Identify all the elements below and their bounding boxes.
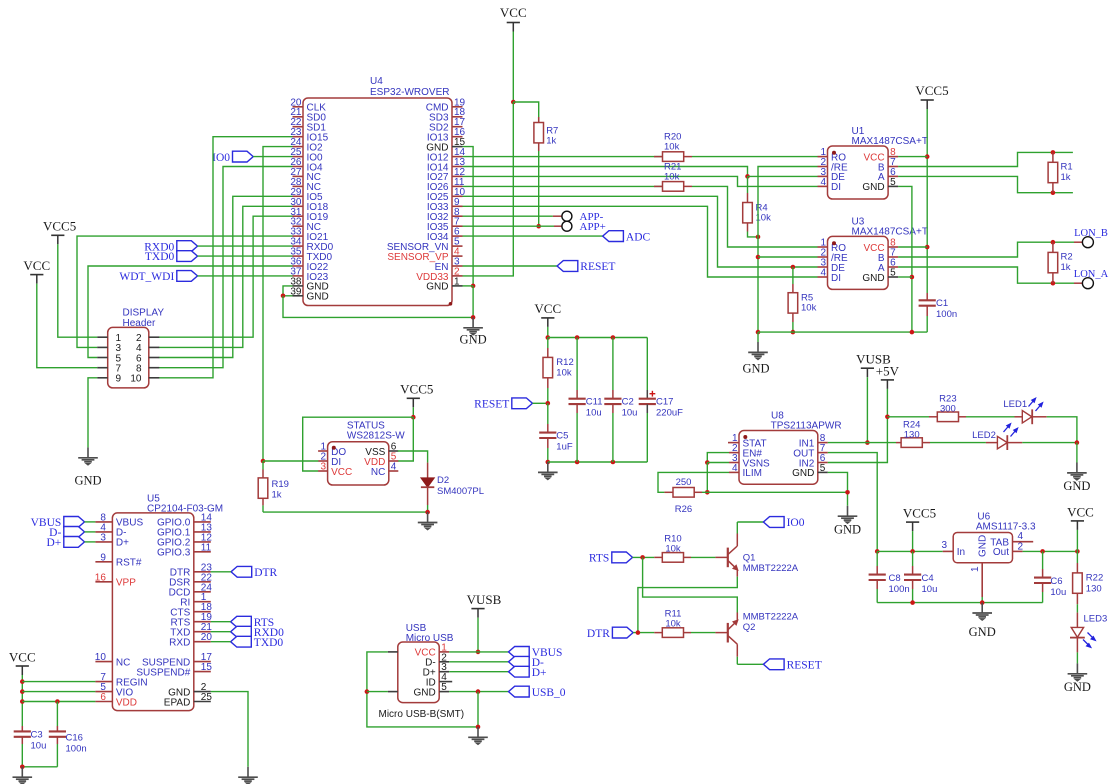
- svg-text:DI: DI: [831, 182, 841, 193]
- svg-text:C4: C4: [922, 573, 934, 584]
- port LON_B: [1074, 228, 1108, 248]
- svg-text:10k: 10k: [664, 142, 680, 153]
- junction C3 gnd: [20, 765, 25, 770]
- svg-text:IO0: IO0: [212, 152, 230, 164]
- junction U8 gnd: [845, 490, 850, 495]
- svg-text:10u: 10u: [1050, 587, 1066, 598]
- wire VCC stem: [512, 32, 514, 103]
- net label WDT_WDI: [119, 271, 197, 284]
- wire VUSB down: [866, 377, 868, 442]
- svg-text:LON_A: LON_A: [1074, 269, 1109, 280]
- svg-text:LED2: LED2: [972, 430, 996, 441]
- svg-text:TXD0: TXD0: [254, 637, 284, 649]
- svg-text:4: 4: [820, 268, 826, 279]
- wire TXD0 u5: [211, 641, 231, 643]
- junction C5 gnd: [546, 460, 551, 465]
- wire VCC stem u5: [21, 675, 23, 726]
- svg-text:1: 1: [970, 566, 981, 572]
- svg-text:AMS1117-3.3: AMS1117-3.3: [976, 522, 1036, 533]
- capacitor C17 polarized: [639, 338, 683, 463]
- ground below U5: [238, 767, 258, 784]
- junction IN1 VUSB: [865, 440, 870, 445]
- svg-text:100n: 100n: [936, 309, 957, 320]
- wire R21 to U3 RO: [692, 186, 818, 247]
- svg-text:RTS: RTS: [589, 553, 609, 565]
- junction DTR: [636, 630, 641, 635]
- svg-text:100n: 100n: [889, 584, 910, 595]
- wire VSNS: [707, 462, 729, 464]
- svg-text:11: 11: [201, 542, 212, 553]
- wire VBUS u5: [85, 521, 96, 523]
- wire IO2 pin24 down to R19: [263, 147, 293, 461]
- svg-text:TXD0: TXD0: [145, 251, 175, 263]
- connector DISPLAY header: [97, 308, 164, 388]
- resistor R24: [896, 420, 930, 448]
- svg-text:R1: R1: [1061, 162, 1073, 173]
- wire R19 node to DI: [263, 460, 318, 462]
- resistor R21: [654, 162, 692, 192]
- wire IO25 to U3 DE: [463, 196, 818, 267]
- wire U1 VCC pin8: [898, 156, 927, 158]
- svg-text:C11: C11: [586, 397, 603, 408]
- IC U8 TPS2113APWR: [728, 411, 842, 485]
- svg-text:NC: NC: [371, 467, 385, 478]
- wire usb D-: [449, 661, 508, 663]
- svg-text:VCC5: VCC5: [903, 506, 936, 521]
- svg-text:10k: 10k: [801, 303, 817, 314]
- IC U6 AMS1117-3.3: [941, 512, 1036, 598]
- svg-text:R12: R12: [556, 357, 573, 368]
- wire usb shield: [367, 652, 478, 727]
- svg-text:R26: R26: [675, 504, 692, 515]
- wire IO26 to R21: [463, 185, 663, 187]
- power flag VCC5 left: [43, 219, 76, 245]
- wire Q1 emitter to DTR: [638, 577, 737, 633]
- wire R26 to gnd node: [702, 491, 848, 493]
- svg-text:APP-: APP-: [580, 211, 604, 223]
- wire VDD: [22, 701, 95, 703]
- wire VSS to D2: [398, 451, 428, 463]
- junction VIO: [20, 689, 25, 694]
- wire U1 GND pin5 down: [898, 186, 912, 332]
- ground below U4: [460, 317, 487, 346]
- junction VDD: [20, 699, 25, 704]
- svg-text:Q1: Q1: [743, 553, 756, 564]
- wire to U1 DE: [748, 175, 818, 177]
- wire usb shield pin2: [367, 691, 388, 693]
- svg-text:GPIO.3: GPIO.3: [157, 548, 191, 559]
- svg-text:GND: GND: [413, 687, 435, 698]
- junction R5 top: [791, 265, 796, 270]
- IC U4 ESP32-WROVER: [290, 76, 465, 306]
- wire DTR node: [633, 632, 654, 634]
- wire IO12 to R20: [463, 156, 663, 158]
- svg-text:CP2104-F03-GM: CP2104-F03-GM: [147, 504, 223, 515]
- svg-text:Out: Out: [993, 547, 1009, 558]
- wire EN pin3 to RESET: [463, 265, 558, 267]
- junction R2 top: [1051, 240, 1056, 245]
- svg-text:GND: GND: [460, 333, 487, 347]
- wire cap bottom bus: [548, 461, 648, 463]
- wire pin1 GND: [463, 285, 474, 287]
- wire WDT_WDI to pin 37: [198, 275, 293, 277]
- wire OUT down: [828, 453, 877, 552]
- svg-text:GND: GND: [862, 182, 884, 193]
- wire ldo input bus: [877, 550, 943, 552]
- junction C16 top: [55, 699, 60, 704]
- svg-text:130: 130: [904, 430, 920, 441]
- junction pin39 gnd: [281, 294, 286, 299]
- junction U3 /RE: [756, 255, 761, 260]
- svg-text:RST#: RST#: [116, 558, 142, 569]
- wire LED1 to gnd corner: [1047, 417, 1077, 443]
- svg-text:RESET: RESET: [787, 660, 822, 672]
- net label IO0: [212, 151, 253, 164]
- wire U1 A loop: [898, 176, 1073, 192]
- junction usb gnd: [476, 689, 481, 694]
- svg-text:VCC: VCC: [500, 5, 527, 20]
- svg-text:NC: NC: [116, 657, 130, 668]
- ground below LEDs: [1063, 463, 1090, 494]
- wire header pin9 to gnd: [88, 378, 97, 448]
- junction RTS: [640, 555, 645, 560]
- svg-text:16: 16: [95, 572, 107, 583]
- junction C4 gnd: [910, 600, 915, 605]
- wire ldo gnd bus: [877, 602, 1042, 604]
- wire RXD0 to pin 34: [198, 245, 293, 247]
- power flag VCC5 status: [400, 382, 433, 408]
- svg-text:6: 6: [100, 692, 106, 703]
- resistor R12: [543, 338, 574, 404]
- wire IO33 to U3 DI: [463, 206, 818, 277]
- port APP-: [562, 211, 604, 223]
- capacitor C6: [1034, 551, 1066, 602]
- port LON_A: [1074, 269, 1109, 289]
- label Micro USB-B(SMT): [379, 709, 465, 720]
- svg-text:Header: Header: [123, 318, 156, 329]
- wire R24 to LED2: [930, 442, 986, 444]
- svg-text:1: 1: [454, 276, 460, 287]
- svg-text:VCC5: VCC5: [43, 219, 76, 234]
- svg-text:+5V: +5V: [876, 364, 900, 379]
- junction R4 gnd: [756, 235, 761, 240]
- svg-text:R2: R2: [1061, 252, 1073, 263]
- svg-text:9: 9: [116, 374, 122, 385]
- wire U3 GND pin5: [898, 276, 912, 278]
- wire TXD0 to pin 35: [198, 255, 293, 257]
- led LED1: [1003, 398, 1046, 424]
- diode D2: [421, 463, 484, 512]
- svg-text:C5: C5: [556, 431, 568, 442]
- wire GND pins 38/39: [283, 286, 293, 296]
- junction REGIN: [20, 679, 25, 684]
- capacitor C16: [49, 702, 87, 767]
- net label RESET q2: [763, 659, 821, 672]
- wire R20 to U1 RO: [692, 156, 818, 158]
- svg-text:ILIM: ILIM: [743, 468, 762, 479]
- svg-text:VCC: VCC: [331, 467, 352, 478]
- wire VUSB stem: [477, 618, 479, 652]
- power flag VUSB right: [856, 352, 891, 378]
- svg-text:5: 5: [890, 177, 896, 188]
- transistor Q1 MMBT2222A: [728, 534, 799, 577]
- capacitor C3: [14, 726, 47, 767]
- wire usb D+: [449, 671, 508, 673]
- svg-text:4: 4: [1018, 531, 1024, 542]
- capacitor C11: [569, 338, 603, 463]
- svg-text:Micro USB-B(SMT): Micro USB-B(SMT): [379, 709, 465, 720]
- svg-text:10u: 10u: [586, 408, 602, 419]
- wire R24 from VUSB: [867, 442, 896, 444]
- connector USB Micro USB: [388, 623, 454, 703]
- power flag VUSB usb: [467, 592, 502, 618]
- svg-text:4: 4: [732, 463, 738, 474]
- power flag VCC mid: [534, 301, 561, 327]
- resistor R20: [654, 132, 692, 162]
- junction DE R4: [745, 174, 750, 179]
- wire IO4 pin26 to header pin8: [159, 167, 293, 368]
- wire VCC stem mid: [547, 327, 549, 338]
- capacitor C1: [919, 293, 958, 332]
- net label RXD0 u5: [231, 626, 284, 639]
- svg-text:RESET: RESET: [580, 261, 615, 273]
- junction U3 VCC: [925, 245, 930, 250]
- net label D+ usb: [509, 666, 547, 679]
- net label D- u5: [49, 527, 84, 540]
- junction C2 bottom: [611, 460, 616, 465]
- wire IO19 pin31 to header pin2: [159, 216, 293, 337]
- svg-text:GND: GND: [969, 625, 996, 639]
- resistor R5: [788, 267, 816, 332]
- svg-text:20: 20: [201, 632, 213, 643]
- svg-text:3: 3: [100, 532, 106, 543]
- svg-text:1k: 1k: [272, 490, 282, 501]
- svg-text:GND: GND: [978, 535, 989, 557]
- net label RTS q: [589, 552, 633, 565]
- junction VSNS: [705, 460, 710, 465]
- svg-text:25: 25: [201, 692, 213, 703]
- wire U3 A loop: [898, 267, 1074, 283]
- svg-text:VCC: VCC: [9, 650, 36, 665]
- resistor R1: [1048, 152, 1073, 192]
- wire VCC5 rail: [926, 109, 928, 293]
- IC U5 CP2104-F03-GM: [95, 494, 223, 711]
- wire RTS to Q2 collector: [643, 557, 738, 612]
- svg-text:TPS2113APWR: TPS2113APWR: [771, 421, 842, 432]
- wire VCC down to VDD33: [463, 102, 514, 276]
- junction R7 APP+: [536, 224, 541, 229]
- resistor R26: [664, 477, 702, 515]
- power flag VCC5 ldo: [903, 506, 936, 532]
- svg-text:VCC: VCC: [534, 301, 561, 316]
- svg-text:ADC: ADC: [626, 231, 651, 243]
- wire C3 C16 gnd bus: [22, 766, 57, 768]
- svg-text:SUSPEND#: SUSPEND#: [136, 667, 190, 678]
- svg-text:VDD: VDD: [116, 697, 137, 708]
- wire U8 GND pin5: [828, 472, 848, 505]
- wire IO32 pin8 to APP-: [463, 215, 562, 217]
- svg-text:DTR: DTR: [587, 628, 610, 640]
- resistor R4: [743, 176, 771, 231]
- svg-text:LON_B: LON_B: [1074, 228, 1108, 239]
- power flag VCC left: [23, 258, 50, 284]
- svg-text:LED1: LED1: [1003, 399, 1027, 410]
- svg-text:RESET: RESET: [474, 399, 509, 411]
- capacitor C2: [604, 338, 637, 463]
- svg-text:VPP: VPP: [116, 578, 136, 589]
- svg-text:GND: GND: [1063, 479, 1090, 493]
- svg-text:9: 9: [100, 552, 106, 563]
- svg-text:ESP32-WROVER: ESP32-WROVER: [370, 87, 449, 98]
- wire RESET to R12 C5: [533, 402, 548, 404]
- junction RESET node: [546, 401, 551, 406]
- svg-text:3: 3: [941, 540, 947, 551]
- ground below header: [74, 447, 101, 487]
- net label RTS u5: [231, 616, 275, 629]
- wire IO0 to pin 25: [253, 156, 292, 158]
- wire R11 to Q2 base: [691, 632, 727, 634]
- wire IO22 pin36 to header pin5: [88, 266, 293, 358]
- svg-text:130: 130: [1086, 584, 1102, 595]
- svg-text:SM4007PL: SM4007PL: [437, 486, 484, 497]
- wire VIO: [22, 691, 95, 693]
- wire Out to VCC: [1023, 550, 1078, 552]
- svg-text:MAX1487CSA+T: MAX1487CSA+T: [852, 136, 928, 147]
- wire IO21 pin33 to header pin3: [77, 236, 293, 347]
- ground below U3: [742, 332, 769, 375]
- wire RTS u5: [211, 621, 231, 623]
- svg-text:D2: D2: [437, 475, 449, 486]
- svg-text:VUSB: VUSB: [467, 592, 502, 607]
- junction usb gnd sym: [476, 725, 481, 730]
- svg-text:300: 300: [940, 404, 956, 415]
- svg-text:C8: C8: [889, 573, 901, 584]
- svg-text:GND: GND: [792, 468, 814, 479]
- gnd bus right of U3: [758, 331, 927, 333]
- svg-text:D+: D+: [47, 537, 62, 549]
- port APP+: [562, 221, 606, 233]
- capacitor C8: [869, 551, 910, 602]
- wire U3 VCC pin8: [898, 246, 927, 248]
- svg-text:15: 15: [201, 662, 213, 673]
- wire U6 gnd pin: [981, 597, 983, 603]
- wire VCC loop to pin3: [303, 417, 414, 471]
- IC U1 MAX1487CSA+T: [818, 126, 928, 199]
- junction VCC5 status: [411, 415, 416, 420]
- net label DTR q: [587, 627, 633, 640]
- svg-text:C1: C1: [936, 298, 948, 309]
- svg-text:GND: GND: [74, 474, 101, 488]
- svg-text:VCC: VCC: [1067, 505, 1094, 520]
- wire EN# VSNS: [707, 453, 729, 463]
- power flag VCC ldo: [1067, 505, 1094, 530]
- wire D+ u5: [85, 541, 96, 543]
- net label VBUS usb: [509, 647, 563, 660]
- svg-text:R19: R19: [272, 479, 289, 490]
- svg-text:IO0: IO0: [787, 517, 805, 529]
- svg-text:10k: 10k: [665, 619, 681, 630]
- svg-text:In: In: [957, 547, 965, 558]
- junction led gnd: [1075, 440, 1080, 445]
- svg-text:10: 10: [130, 374, 142, 385]
- svg-text:C3: C3: [31, 730, 43, 741]
- svg-text:D+: D+: [116, 538, 129, 549]
- svg-text:10k: 10k: [665, 544, 681, 555]
- led LED3: [1070, 613, 1107, 664]
- wire U1 B loop: [898, 152, 1073, 166]
- svg-text:VCC: VCC: [23, 258, 50, 273]
- wire REGIN: [22, 681, 95, 683]
- wire +5V to R23: [887, 416, 929, 418]
- svg-text:WS2812S-W: WS2812S-W: [347, 431, 405, 442]
- led LED2: [972, 424, 1022, 450]
- net label TXD0: [145, 251, 198, 264]
- svg-text:C2: C2: [622, 397, 634, 408]
- IC U3 MAX1487CSA+T: [818, 217, 928, 290]
- net label TXD0 u5: [231, 636, 284, 649]
- junction C2 top: [611, 335, 616, 340]
- wire VDD pin5: [398, 417, 414, 461]
- wire R23 to LED1: [966, 416, 1015, 418]
- wire LED2 to gnd: [1022, 442, 1077, 444]
- svg-text:10u: 10u: [31, 741, 47, 752]
- wire IO15 pin23 to header pin10: [159, 137, 293, 378]
- power flag VCC5 right: [915, 83, 948, 109]
- svg-text:USB_0: USB_0: [532, 687, 566, 699]
- wire Q2 emitter to RESET: [737, 657, 763, 665]
- svg-text:GND: GND: [426, 282, 448, 293]
- svg-text:4: 4: [820, 177, 826, 188]
- svg-text:1k: 1k: [1061, 172, 1071, 183]
- junction U6 gnd: [980, 600, 985, 605]
- wire RTS node: [633, 556, 655, 558]
- wire IO18 pin30 to header pin4: [159, 206, 293, 347]
- junction C11 bottom: [575, 460, 580, 465]
- wire IO5 pin29 to header pin6: [159, 196, 293, 357]
- svg-text:MMBT2222A: MMBT2222A: [743, 612, 799, 623]
- wire R4 bottom to gnd rail: [748, 232, 759, 237]
- net label USB_0: [509, 686, 566, 699]
- junction gnd rail bottom: [756, 330, 761, 335]
- svg-text:10k: 10k: [664, 172, 680, 183]
- svg-text:GND: GND: [834, 523, 861, 537]
- svg-text:4: 4: [391, 462, 397, 473]
- ground below C5: [538, 462, 558, 480]
- net label D- usb: [509, 656, 545, 669]
- svg-text:3: 3: [321, 462, 327, 473]
- net label D+ u5: [47, 537, 85, 550]
- ground below USB: [468, 727, 488, 745]
- ground below U6: [969, 603, 996, 639]
- wire U1 /RE to gnd rail: [758, 167, 818, 333]
- resistor R2: [1048, 242, 1073, 283]
- wire VCC5 stem ldo: [912, 531, 914, 551]
- ground bottom left: [13, 767, 33, 784]
- svg-text:100n: 100n: [66, 744, 87, 755]
- power flag +5V: [876, 364, 900, 389]
- wire pin15 GND down: [463, 147, 474, 286]
- power flag VCC u5: [9, 650, 36, 676]
- net label ADC: [603, 231, 651, 244]
- svg-text:5: 5: [890, 268, 896, 279]
- wire IN1: [828, 442, 868, 444]
- capacitor C5: [539, 403, 573, 462]
- svg-text:GND: GND: [742, 362, 769, 376]
- svg-text:C6: C6: [1050, 576, 1062, 587]
- wire U3 B loop: [898, 242, 1074, 257]
- transistor Q2 MMBT2222A: [728, 612, 799, 657]
- svg-text:C17: C17: [656, 397, 673, 408]
